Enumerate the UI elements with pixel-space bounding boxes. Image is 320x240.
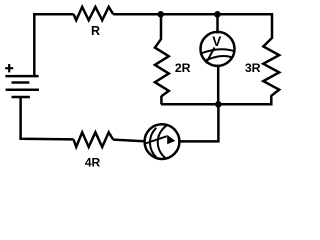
svg-text:3R: 3R	[245, 61, 261, 75]
svg-text:4R: 4R	[85, 155, 101, 169]
svg-text:V: V	[212, 34, 221, 49]
svg-text:R: R	[91, 24, 100, 38]
svg-text:2R: 2R	[175, 61, 191, 75]
